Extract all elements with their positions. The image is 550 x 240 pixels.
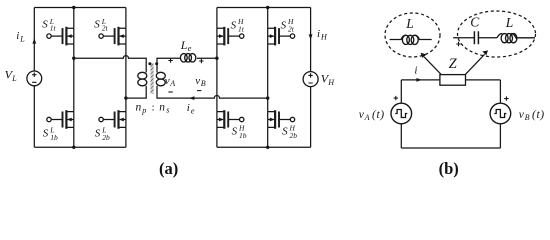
wire: transformer primary bottom to leg2 midpoint <box>126 86 146 98</box>
voltage source VH <box>303 72 318 87</box>
svg-text:S: S <box>231 19 237 31</box>
wire: leg1 bottom segment (S1b source to bottom rail) <box>73 127 75 147</box>
label + (vB source) <box>504 96 508 100</box>
svg-text:B: B <box>201 79 206 88</box>
transformer T1 core (hatched) <box>151 63 154 94</box>
inductor L (left ellipse) <box>390 35 432 44</box>
wire: secondary top to inductor Le <box>157 58 181 72</box>
svg-text:(a): (a) <box>159 159 178 178</box>
wire: loop right rail top (to vB) <box>499 80 501 103</box>
wire: bottom rail of left bridge <box>34 146 126 148</box>
wire: leg1 mid segment (S1t source to S1b drain) <box>73 44 75 112</box>
svg-text:2b: 2b <box>290 131 298 140</box>
node: top rail / leg1 junction <box>72 6 75 9</box>
transformer T1 secondary winding (ns) <box>156 72 165 86</box>
label + (capacitor) <box>456 42 460 46</box>
svg-text:s: s <box>166 106 169 115</box>
wire: Le to right-bridge leg1 midpoint <box>197 57 217 59</box>
svg-text:L: L <box>180 38 188 52</box>
wire: right rail top (top rail to VH+) with iH arrow <box>310 8 312 72</box>
svg-text:B: B <box>525 113 530 122</box>
svg-text::: : <box>152 101 155 113</box>
svg-text:S: S <box>94 18 100 30</box>
svg-text:n: n <box>136 101 142 113</box>
wire: leg1 drain segment (top rail to S1t) <box>73 8 75 29</box>
svg-text:L: L <box>11 74 17 83</box>
svg-text:(t): (t) <box>532 109 544 121</box>
label + (vB top) <box>199 59 203 63</box>
svg-text:Z: Z <box>449 56 458 72</box>
wire: leg2 bottom segment (S2b source to bottom rail) <box>125 127 127 147</box>
transformer T1 polarity dot (secondary) <box>155 62 158 65</box>
wire: loop right rail bottom <box>499 124 501 148</box>
svg-text:1t: 1t <box>238 25 245 34</box>
svg-text:v: v <box>195 75 200 87</box>
svg-text:H: H <box>320 32 328 41</box>
wire: loop top-right segment <box>466 79 501 81</box>
svg-text:A: A <box>364 113 370 122</box>
svg-text:2t: 2t <box>288 25 295 34</box>
label - (vB bottom) <box>197 90 201 92</box>
wire: loop left rail top (vA to top wire) <box>400 80 402 103</box>
node: bottom rail / leg1 junction <box>72 146 75 149</box>
wire: left rail top (VL+ to top rail) with iL arrow <box>33 8 35 72</box>
transistor S1t^L <box>47 27 74 46</box>
source vA(t) <box>391 103 412 124</box>
svg-text:(b): (b) <box>439 159 459 178</box>
ie current arrowhead <box>189 96 194 100</box>
iL current arrowhead <box>32 38 36 43</box>
svg-text:L: L <box>505 15 514 30</box>
label + (vA top) <box>168 58 172 62</box>
wire: bottom rail of right bridge <box>217 146 311 148</box>
wire: right leg2 mid segment <box>267 44 269 112</box>
transistor S2b^H <box>268 110 295 129</box>
i current arrowhead <box>416 78 421 82</box>
svg-text:i: i <box>317 28 320 40</box>
svg-text:e: e <box>191 105 195 115</box>
transformer T1 primary winding (np) <box>138 72 147 86</box>
node: right leg1 midpoint junction (vB+) <box>215 57 218 60</box>
wire: right leg2 drain segment <box>267 8 269 29</box>
impedance Z box <box>440 75 466 86</box>
transistor S1b^L <box>47 110 74 129</box>
svg-text:C: C <box>470 14 480 29</box>
svg-text:1t: 1t <box>50 24 57 33</box>
node: right leg2 / ie-wire junction <box>266 96 269 99</box>
dashed ellipse (series LC Z case) <box>458 11 536 57</box>
transistor S2b^L <box>99 110 126 129</box>
dashed ellipse (inductive Z case) <box>385 13 440 57</box>
wire: right leg2 bottom segment <box>267 127 269 147</box>
svg-text:S: S <box>42 18 48 30</box>
svg-text:L: L <box>19 35 25 44</box>
wire: leg1 midpoint to transformer primary top (hops over leg2) <box>74 56 146 73</box>
svg-text:v: v <box>165 75 170 87</box>
wire: top rail of left bridge <box>34 7 126 9</box>
capacitor C <box>453 31 497 44</box>
wire: leg2 mid segment (S2t source to S2b drain) <box>125 44 127 112</box>
svg-text:S: S <box>43 128 49 140</box>
transformer T1 polarity dot (primary) <box>148 62 151 65</box>
svg-text:S: S <box>232 126 238 138</box>
svg-text:1b: 1b <box>239 131 247 140</box>
transistor S1t^H <box>217 27 244 46</box>
wire: loop top-left segment with current i <box>401 79 440 81</box>
svg-text:S: S <box>95 128 101 140</box>
transistor S2t^H <box>268 27 295 46</box>
svg-text:i: i <box>414 65 417 77</box>
transistor S2t^L <box>99 27 126 46</box>
svg-text:p: p <box>141 106 146 115</box>
svg-text:2b: 2b <box>102 133 110 142</box>
wire: right leg1 mid segment <box>216 44 218 112</box>
iH current arrowhead <box>309 34 313 39</box>
voltage source VL <box>27 71 42 86</box>
node B : leg2 / primary-bottom junction <box>124 96 127 99</box>
node: bottom rail / right leg2 junction <box>266 146 269 149</box>
arrow from Z to left ellipse <box>424 57 441 74</box>
node: top rail / right leg2 junction <box>266 6 269 9</box>
svg-text:S: S <box>282 126 288 138</box>
source vB(t) <box>490 103 511 124</box>
wire: left rail bottom (VL- to bottom rail) <box>33 86 35 148</box>
svg-text:i: i <box>187 102 190 114</box>
wire: right leg1 bottom segment <box>216 127 218 147</box>
transistor S1b^H <box>217 110 244 129</box>
svg-text:(t): (t) <box>372 109 384 121</box>
svg-text:n: n <box>159 101 165 113</box>
wire: loop left rail bottom <box>400 124 402 148</box>
wire: right leg1 drain segment <box>216 8 218 29</box>
svg-text:2t: 2t <box>102 24 109 33</box>
wire: loop bottom segment <box>401 147 500 149</box>
svg-text:H: H <box>327 78 335 87</box>
wire: secondary bottom return to right-bridge leg2 (hops over leg1), current ie <box>157 86 268 98</box>
wire: right rail bottom (VH- to bottom rail) <box>310 87 312 148</box>
svg-text:S: S <box>281 19 287 31</box>
inductor Le <box>180 54 195 62</box>
svg-text:1b: 1b <box>50 133 58 142</box>
svg-text:i: i <box>16 30 19 42</box>
inductor L (right ellipse) <box>497 34 535 43</box>
wire: leg2 drain segment (top rail corner to S2t) <box>125 8 127 29</box>
svg-text:A: A <box>169 79 175 88</box>
label - (vA bottom) <box>168 91 172 93</box>
label + (vA source) <box>394 96 398 100</box>
wire: top rail of right bridge <box>217 7 311 9</box>
svg-text:L: L <box>405 16 414 31</box>
arrow from Z to right ellipse <box>466 54 485 74</box>
svg-text:e: e <box>188 43 192 53</box>
node A : leg1 midpoint junction <box>72 57 75 60</box>
